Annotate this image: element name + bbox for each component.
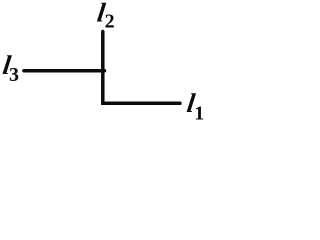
wire: horizontal segment of line l3 meeting line l2 at T-junction	[24, 69, 105, 73]
wire: vertical segment of line l2 with elbow continuing right to line l1	[103, 32, 180, 104]
svg-text:1: 1	[194, 103, 204, 125]
svg-text:3: 3	[9, 64, 19, 86]
label l1	[185, 88, 204, 124]
svg-text:2: 2	[105, 10, 115, 32]
label l2	[95, 0, 114, 32]
label l3	[1, 50, 19, 86]
